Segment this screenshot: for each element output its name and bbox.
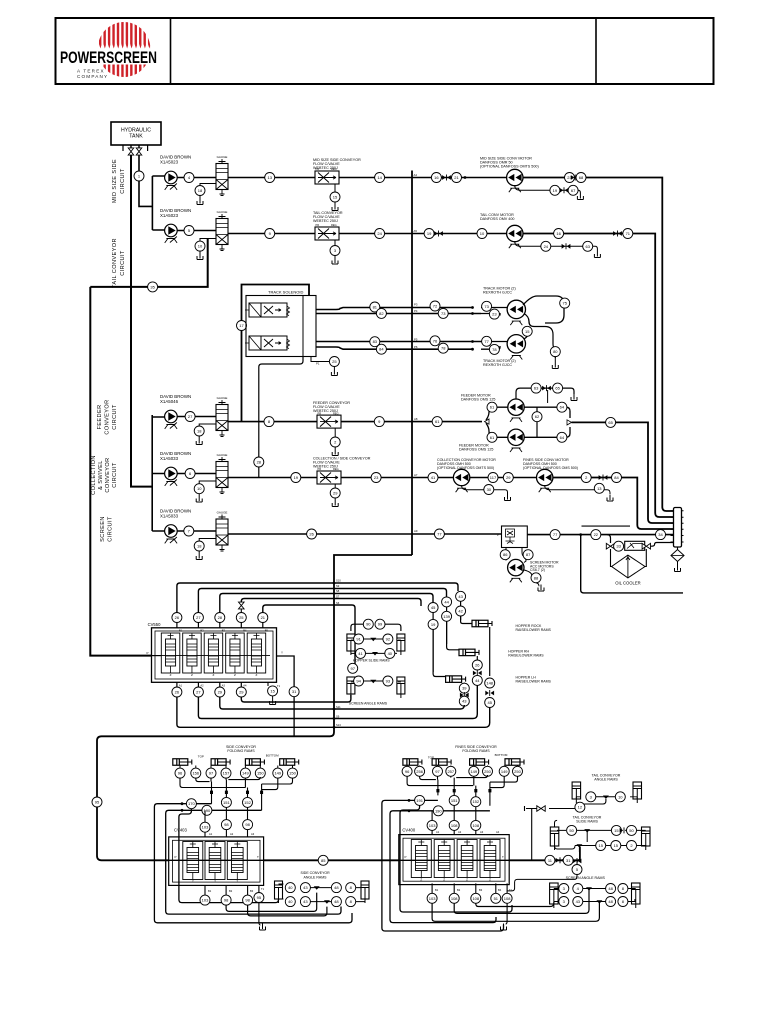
svg-text:SCREEN ANGLE RAMS: SCREEN ANGLE RAMS	[349, 702, 388, 706]
svg-text:CIRCUIT: CIRCUIT	[120, 168, 126, 194]
svg-text:13: 13	[267, 175, 272, 180]
hose 152 circle	[243, 797, 253, 807]
svg-text:35: 35	[150, 284, 155, 289]
svg-text:B2: B2	[229, 889, 233, 893]
svg-text:B3: B3	[250, 889, 254, 893]
svg-text:256: 256	[416, 769, 423, 774]
svg-text:98: 98	[224, 822, 229, 827]
loop3 wire	[179, 809, 279, 903]
wire relief3 to fcv3	[228, 421, 317, 423]
tail angle feed	[549, 799, 606, 812]
CV403 drain	[259, 903, 261, 926]
hose 77 circle	[434, 529, 444, 539]
svg-text:108: 108	[472, 823, 479, 828]
CV550 bottom ports	[176, 682, 178, 687]
tail angle valve	[537, 806, 545, 812]
screen motor relief box	[502, 526, 528, 548]
hose 139 chain to RH ram	[446, 607, 448, 644]
svg-text:71: 71	[626, 231, 631, 236]
svg-text:REG: REG	[331, 223, 337, 227]
tail angle line to main	[525, 806, 537, 860]
svg-text:95: 95	[95, 799, 100, 804]
pump P5 David Brown X1A5033	[160, 509, 191, 519]
svg-text:90: 90	[366, 622, 371, 627]
hose 152b circle	[471, 797, 481, 807]
svg-text:75: 75	[562, 301, 567, 306]
motor M2 tail conveyor	[480, 213, 514, 221]
svg-text:Z: Z	[256, 673, 258, 677]
svg-text:CIRCUIT: CIRCUIT	[108, 516, 114, 542]
svg-text:149: 149	[470, 769, 477, 774]
wire pump1 to relief	[177, 177, 216, 179]
CV550 feed line P	[152, 655, 162, 657]
wire screen main	[228, 533, 502, 535]
track motor TM1	[483, 287, 516, 295]
svg-text:P: P	[175, 855, 177, 859]
svg-text:A1: A1	[179, 684, 183, 688]
track motor TM1 loop	[523, 296, 564, 323]
svg-text:23: 23	[492, 312, 497, 317]
svg-text:CIRCUIT: CIRCUIT	[120, 250, 126, 276]
svg-text:96: 96	[405, 769, 410, 774]
svg-text:18: 18	[198, 188, 203, 193]
coupler row1b	[571, 175, 575, 180]
svg-text:MID SIZE SIDE: MID SIZE SIDE	[112, 159, 118, 203]
svg-text:19: 19	[294, 475, 299, 480]
svg-text:GAUGE: GAUGE	[217, 155, 228, 159]
svg-text:A4: A4	[496, 830, 500, 834]
svg-text:45: 45	[431, 605, 436, 610]
motor M1 mid size side conv	[480, 157, 539, 169]
tank outlet valve V1	[130, 145, 132, 148]
spur to A1 right hose 103	[431, 811, 433, 821]
hose 71 circle	[623, 229, 633, 239]
spur to A1 hose 103	[204, 810, 206, 822]
track solenoid valve SV2	[249, 336, 261, 350]
wire motor M1 out	[523, 178, 674, 512]
svg-text:P1: P1	[316, 362, 320, 366]
feeder motors top drain	[516, 388, 574, 399]
hose 77b circle	[550, 530, 560, 540]
hose 23b circle	[371, 473, 381, 483]
svg-text:PR: PR	[316, 223, 320, 227]
svg-text:152: 152	[244, 800, 251, 805]
svg-text:151: 151	[223, 800, 230, 805]
hose 27 circle	[185, 412, 195, 422]
hose 2b circle	[581, 473, 591, 483]
hose 19 circle	[424, 229, 434, 239]
hose 42 chain to rock ram	[460, 601, 462, 620]
hose 6 circle	[185, 469, 195, 479]
svg-text:34: 34	[658, 532, 663, 537]
CV400 section 2	[434, 840, 454, 878]
svg-text:X1A5046: X1A5046	[160, 399, 179, 404]
hose 61 circle	[432, 417, 442, 427]
hose 19b circle	[291, 473, 301, 483]
CV400 bottom hoses	[427, 893, 437, 903]
svg-text:TANK: TANK	[129, 134, 143, 140]
hose 34 circle	[656, 530, 666, 540]
svg-text:48: 48	[608, 899, 613, 904]
CV403 bottom hoses	[200, 895, 210, 905]
svg-text:HOPPER SLIDE RAMS: HOPPER SLIDE RAMS	[353, 659, 391, 663]
feeder inter-motor link	[536, 407, 538, 437]
svg-text:19: 19	[553, 188, 558, 193]
svg-text:A3: A3	[251, 832, 255, 836]
svg-text:41: 41	[358, 651, 363, 656]
svg-text:50: 50	[569, 828, 574, 833]
svg-text:23: 23	[374, 475, 379, 480]
hose 22 circle	[591, 530, 601, 540]
wire jog to CV550 riser	[102, 555, 413, 736]
return filter F1	[674, 508, 682, 548]
hopper rock ram return	[489, 627, 491, 676]
track manifold drain right	[311, 357, 330, 362]
svg-text:39: 39	[462, 686, 467, 691]
wire riser junction dots	[333, 582, 336, 585]
relief RV3 drain	[199, 424, 216, 426]
svg-text:61: 61	[490, 435, 495, 440]
svg-text:SCREEN ANGLE RAMS: SCREEN ANGLE RAMS	[566, 876, 606, 880]
motor M1 case drain	[515, 186, 581, 193]
FCV1 drain	[334, 184, 336, 192]
svg-text:B2: B2	[200, 629, 204, 633]
filter bypass diamond	[677, 547, 679, 550]
svg-text:15: 15	[333, 194, 338, 199]
svg-text:40: 40	[388, 651, 393, 656]
wire fcv4 to motor M7	[341, 477, 453, 479]
svg-text:98: 98	[224, 898, 229, 903]
svg-text:CIRCUIT: CIRCUIT	[112, 462, 118, 488]
svg-text:15: 15	[525, 329, 530, 334]
svg-text:B5: B5	[265, 629, 269, 633]
wire screen motor to cooler	[527, 534, 673, 536]
CV403 top port stubs	[205, 807, 248, 837]
svg-text:CV403: CV403	[174, 828, 187, 833]
svg-text:OIL COOLER: OIL COOLER	[615, 581, 640, 586]
svg-text:85: 85	[321, 858, 326, 863]
svg-text:(OPTIONAL DANFOSS OMTS 500): (OPTIONAL DANFOSS OMTS 500)	[437, 466, 494, 470]
svg-text:RAISE/LOWER RAMS: RAISE/LOWER RAMS	[508, 653, 544, 657]
svg-text:GAUGE: GAUGE	[217, 210, 228, 214]
svg-text:29: 29	[218, 689, 223, 694]
wire fcv1 to motor M1	[339, 177, 507, 179]
bus S9 wire	[198, 589, 446, 613]
svg-text:Z: Z	[192, 880, 194, 884]
svg-text:151: 151	[451, 798, 458, 803]
svg-text:S10: S10	[336, 579, 341, 583]
svg-text:A1: A1	[436, 830, 440, 834]
tail conveyor angle rams	[592, 773, 621, 781]
CV550 tank port T drain	[267, 682, 269, 686]
svg-text:B3: B3	[222, 629, 226, 633]
hose 68 circle	[576, 173, 586, 183]
fines folding ram hoses	[406, 766, 408, 769]
CV550 section 3	[204, 633, 223, 673]
svg-text:31: 31	[292, 689, 297, 694]
svg-text:77: 77	[484, 339, 489, 344]
svg-text:78: 78	[441, 346, 446, 351]
svg-text:DANFOSS OMS 125: DANFOSS OMS 125	[459, 448, 493, 452]
hose 8 circle	[264, 417, 274, 427]
svg-text:P3: P3	[414, 303, 418, 307]
wire suction bus pumps 3-5	[152, 415, 164, 531]
svg-text:CV400: CV400	[402, 828, 415, 833]
svg-text:WEBTEC 250J: WEBTEC 250J	[313, 219, 338, 223]
wire pump3 to relief3	[177, 416, 216, 418]
CV550 section 2	[183, 633, 202, 673]
svg-text:64: 64	[560, 435, 565, 440]
feeder motor M6	[486, 423, 508, 437]
feeder motor M5	[461, 394, 495, 402]
svg-text:B1: B1	[208, 889, 212, 893]
svg-text:77: 77	[437, 531, 442, 536]
wire H2 left with hose 190	[166, 810, 341, 914]
svg-text:B4: B4	[243, 629, 247, 633]
svg-text:T: T	[257, 855, 259, 859]
svg-text:Z: Z	[489, 878, 491, 882]
track wire C	[316, 341, 481, 343]
svg-text:10: 10	[618, 794, 623, 799]
svg-text:97: 97	[435, 769, 440, 774]
svg-text:103: 103	[429, 823, 436, 828]
svg-text:A4: A4	[414, 173, 418, 177]
svg-text:A9: A9	[414, 529, 418, 533]
svg-text:28: 28	[257, 459, 262, 464]
svg-text:83: 83	[373, 339, 378, 344]
svg-text:FOLDING RAMS: FOLDING RAMS	[462, 749, 490, 753]
wire pump5 to relief5	[177, 530, 216, 532]
svg-text:S9: S9	[336, 584, 340, 588]
hopper RH ram	[459, 649, 475, 656]
svg-text:73: 73	[441, 311, 446, 316]
svg-text:108: 108	[451, 823, 458, 828]
svg-text:18: 18	[197, 428, 202, 433]
svg-text:A8: A8	[414, 417, 418, 421]
svg-text:PR: PR	[318, 411, 322, 415]
fines side conveyor folding rams	[455, 745, 497, 753]
wire H2 right with hose 190b	[390, 811, 496, 923]
svg-text:14: 14	[377, 175, 382, 180]
svg-text:S6: S6	[336, 601, 340, 605]
svg-text:(OPTIONAL DANFOSS OMTS 500): (OPTIONAL DANFOSS OMTS 500)	[480, 165, 539, 169]
CV550 internal through line	[158, 655, 270, 657]
svg-text:CV550: CV550	[148, 622, 161, 627]
screen angle rams left group	[348, 663, 358, 673]
svg-text:S8: S8	[336, 589, 340, 593]
hopper LH ram return	[463, 683, 465, 684]
hose 24 circle	[375, 229, 385, 239]
svg-text:Z: Z	[191, 673, 193, 677]
svg-text:15: 15	[598, 843, 603, 848]
Side Conveyor rams	[226, 745, 256, 753]
svg-text:REG: REG	[331, 167, 337, 171]
flow control valve FCV1 Webtec	[313, 158, 361, 170]
svg-text:18: 18	[197, 543, 202, 548]
svg-text:X1A5033: X1A5033	[160, 513, 179, 518]
motor M8 fines side conveyor	[523, 458, 578, 470]
svg-text:COMPANY: COMPANY	[77, 74, 108, 79]
hose 11 circle	[545, 855, 555, 865]
svg-text:Z: Z	[466, 878, 468, 882]
coupler row2	[434, 231, 438, 236]
Powerscreen logo	[59, 20, 158, 79]
svg-text:SLIDE RAMS: SLIDE RAMS	[576, 819, 598, 823]
wire fcv2 to motor M2	[339, 233, 507, 235]
CV550 top ports	[176, 623, 178, 628]
svg-text:103: 103	[202, 898, 209, 903]
svg-text:22: 22	[594, 532, 599, 537]
track manifold drain left	[259, 357, 303, 478]
pump P1 David Brown X1A5023	[160, 155, 191, 165]
pump P4 David Brown X1A5033	[160, 451, 191, 461]
svg-text:P6: P6	[414, 345, 418, 349]
svg-text:Z: Z	[213, 673, 215, 677]
hose 9b circle	[374, 417, 384, 427]
svg-text:P: P	[405, 855, 407, 859]
wire M8 return to filter	[553, 478, 674, 530]
filter drain	[677, 562, 679, 566]
svg-text:15: 15	[614, 828, 619, 833]
screen motor M9	[506, 548, 526, 563]
CV403 section 2	[205, 842, 225, 880]
svg-text:84: 84	[614, 475, 619, 480]
svg-text:92: 92	[386, 636, 391, 641]
svg-text:250: 250	[484, 769, 491, 774]
svg-text:44: 44	[444, 599, 449, 604]
bus port riser B4 to screen angle rams	[241, 695, 351, 702]
svg-text:94: 94	[356, 678, 361, 683]
svg-text:P: P	[497, 533, 499, 537]
hopper LH ram	[446, 676, 462, 683]
svg-text:43: 43	[303, 899, 308, 904]
hose 13 circle	[265, 173, 275, 183]
hose 45 circle	[428, 603, 438, 613]
svg-text:31: 31	[566, 858, 571, 863]
CV400 top hoses	[449, 820, 459, 830]
svg-text:21: 21	[261, 615, 266, 620]
svg-text:X1A5023: X1A5023	[160, 159, 179, 164]
hose 43 circle	[456, 591, 466, 601]
wire pressure to CV403	[97, 736, 169, 860]
svg-text:63: 63	[585, 244, 590, 249]
svg-text:POWERSCREEN: POWERSCREEN	[60, 49, 157, 67]
svg-text:86: 86	[503, 552, 508, 557]
svg-text:50: 50	[629, 828, 634, 833]
wire H1 right with hose 191	[382, 800, 504, 931]
svg-text:Z: Z	[170, 673, 172, 677]
svg-text:21: 21	[454, 175, 459, 180]
hose 44 circle	[442, 597, 452, 607]
tank outlet stubs	[123, 145, 148, 151]
svg-text:TRACK SOLENOID: TRACK SOLENOID	[268, 290, 303, 295]
riser crimp pads right	[436, 789, 439, 792]
cooler branch down	[581, 535, 683, 593]
svg-text:51: 51	[494, 896, 499, 901]
wire motor M2 out	[523, 234, 674, 518]
screen angle feed wires	[454, 890, 589, 913]
svg-text:Y: Y	[281, 651, 283, 655]
track wire A	[316, 308, 473, 310]
svg-text:29: 29	[506, 475, 511, 480]
svg-text:DANFOSS OMS 125: DANFOSS OMS 125	[461, 398, 495, 402]
svg-text:SIDE CONVEYOR: SIDE CONVEYOR	[301, 871, 331, 875]
svg-text:X1A5033: X1A5033	[160, 456, 179, 461]
pump P3 David Brown X1A5046	[160, 394, 191, 404]
svg-text:A3: A3	[480, 830, 484, 834]
feeder motors out merge	[524, 407, 570, 437]
svg-text:44: 44	[475, 678, 480, 683]
wire track feed riser	[242, 285, 310, 422]
tail slide branch down	[577, 848, 579, 865]
oil cooler core	[607, 535, 611, 543]
svg-text:A7: A7	[414, 473, 418, 477]
coupler row1	[442, 175, 446, 180]
relief RV4 drain	[199, 481, 216, 484]
svg-text:(OPTIONAL DANFOSS OMS 500): (OPTIONAL DANFOSS OMS 500)	[523, 466, 578, 470]
svg-text:65: 65	[555, 386, 560, 391]
svg-text:108: 108	[472, 896, 479, 901]
svg-text:A2: A2	[200, 684, 204, 688]
FCV4 drain	[334, 484, 336, 488]
svg-text:10: 10	[480, 231, 485, 236]
svg-text:16: 16	[556, 231, 561, 236]
CV400 section 1	[411, 840, 431, 878]
svg-text:27: 27	[196, 689, 201, 694]
hose 85 circle	[318, 855, 328, 865]
svg-text:P: P	[147, 651, 149, 655]
bus S8 wire	[220, 594, 433, 613]
svg-text:43: 43	[303, 885, 308, 890]
svg-text:CS6.7 (2): CS6.7 (2)	[530, 568, 545, 572]
svg-text:103: 103	[202, 825, 209, 830]
bus S6 wire	[263, 605, 355, 664]
svg-text:B4: B4	[498, 888, 502, 892]
svg-text:61: 61	[435, 419, 440, 424]
svg-text:B1: B1	[435, 888, 439, 892]
wire feeder return to filter	[572, 422, 674, 523]
svg-text:13: 13	[597, 486, 602, 491]
svg-text:72: 72	[433, 303, 438, 308]
FCV2 drain	[334, 240, 336, 246]
svg-text:REXROTH GJCC: REXROTH GJCC	[483, 291, 512, 295]
svg-text:150: 150	[257, 771, 264, 776]
hose 151b circle	[449, 795, 459, 805]
svg-text:80: 80	[553, 349, 558, 354]
oil cooler bypass diamond	[612, 555, 645, 578]
hopper slide rams group	[347, 634, 355, 651]
svg-text:108: 108	[504, 896, 511, 901]
pump P2 David Brown X1A5023	[160, 208, 191, 218]
svg-text:97: 97	[350, 666, 355, 671]
wire tank to lower pumps suction	[131, 155, 152, 487]
svg-text:148: 148	[486, 680, 493, 685]
svg-text:149: 149	[274, 771, 281, 776]
hose 95 circle	[92, 797, 102, 807]
svg-text:GAUGE: GAUGE	[217, 396, 228, 400]
hose 26 circle	[307, 529, 317, 539]
svg-text:25: 25	[239, 615, 244, 620]
svg-text:A2: A2	[458, 830, 462, 834]
oil cooler enclosure top	[582, 525, 631, 527]
svg-text:33: 33	[616, 544, 621, 549]
CV550 T out right	[277, 656, 295, 687]
title block frame	[56, 18, 714, 84]
svg-text:15: 15	[270, 688, 275, 693]
svg-text:X1A5023: X1A5023	[160, 213, 179, 218]
svg-text:43: 43	[576, 899, 581, 904]
svg-text:B2: B2	[457, 888, 461, 892]
